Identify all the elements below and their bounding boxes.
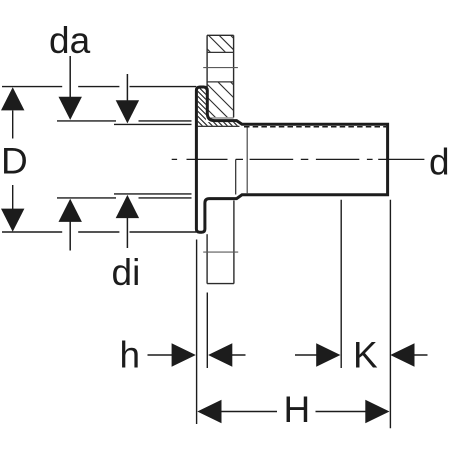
di bottom shaft: [126, 217, 128, 248]
H right-pointing arrow: [365, 400, 389, 423]
K / H extension line right: [389, 200, 391, 428]
d leader line: [378, 158, 424, 160]
svg-text:d: d: [429, 141, 450, 182]
K left-pointing arrow: [390, 343, 414, 366]
D top arrow: [1, 87, 24, 110]
da top arrow: [59, 97, 82, 120]
h right-pointing arrow: [172, 343, 196, 366]
K right-pointing arrow: [316, 343, 340, 366]
K right shaft: [414, 354, 428, 356]
loose flange bar left edge: [206, 35, 208, 87]
svg-text:h: h: [120, 335, 141, 376]
loose flange hatch mid band: [118, 20, 289, 140]
h extension line (flange face): [206, 293, 208, 369]
D top reference line: [2, 86, 196, 88]
svg-text:K: K: [353, 335, 378, 376]
collar section hatch: [92, 20, 257, 140]
flange bore edge line: [209, 117, 234, 119]
di bottom arrow: [116, 195, 139, 218]
centerline dash-dot: [172, 158, 373, 160]
di top reference line: [114, 123, 192, 125]
da top shaft: [69, 56, 71, 97]
di top shaft: [126, 74, 128, 101]
D bottom arrow: [1, 209, 24, 232]
svg-text:H: H: [284, 389, 311, 430]
loose flange bar top edge: [207, 34, 234, 36]
collar and pipe thick outline: [196, 87, 387, 232]
pipe bore hidden dashed line: [244, 126, 386, 128]
H left-pointing arrow: [197, 400, 221, 423]
flange lower rect right edge: [233, 200, 235, 283]
collar bore line: [198, 125, 240, 127]
da bottom shaft: [69, 221, 71, 251]
flange lower rect bottom edge: [207, 283, 234, 285]
di top arrow: [116, 100, 139, 123]
flange lower rect left edge: [206, 234, 208, 283]
h left shaft: [148, 354, 173, 356]
taper edge line bottom half: [235, 159, 237, 194]
da top reference line: [57, 120, 192, 122]
h left-pointing arrow: [208, 343, 232, 366]
H right shaft: [316, 411, 367, 413]
K extension line left: [340, 200, 342, 368]
bolt hole center line bottom: [203, 251, 238, 253]
bolt hole center line top: [203, 67, 238, 69]
h right shaft: [232, 354, 246, 356]
da bottom arrow: [59, 199, 82, 222]
svg-text:da: da: [49, 20, 91, 61]
H left shaft: [221, 411, 278, 413]
di bottom reference line: [114, 193, 192, 195]
svg-text:D: D: [1, 141, 28, 182]
dimension D line: [12, 111, 14, 210]
bolt hole band upper line: [207, 51, 234, 53]
bolt hole band lower line: [207, 81, 234, 83]
D bottom reference line: [2, 231, 196, 233]
weld joint line: [246, 126, 248, 193]
h extension line (collar face): [196, 240, 198, 425]
svg-text:di: di: [112, 252, 141, 293]
loose flange bar right edge: [233, 35, 235, 117]
loose flange hatch top band: [178, 20, 335, 140]
da bottom reference line: [57, 197, 192, 199]
K left shaft: [295, 354, 317, 356]
